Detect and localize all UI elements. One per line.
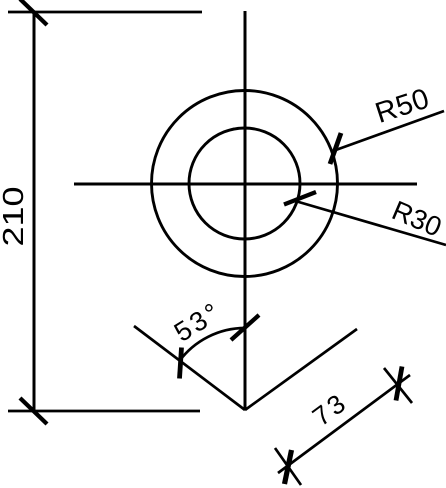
extension line lower (73 dim) — [275, 448, 301, 485]
leader line R30 — [297, 202, 446, 246]
tick R30 leader — [284, 192, 316, 205]
tick top of 210 dim — [20, 0, 47, 25]
arc tick on vertical centerline — [231, 315, 259, 340]
extension line upper (73 dim) — [384, 368, 412, 403]
left radiating line (53 deg leg) — [134, 326, 245, 410]
tick bottom of 210 dim — [20, 398, 47, 424]
centerline horizontal — [74, 183, 417, 186]
tick upper end of 73 dim — [396, 367, 402, 401]
outer circle R50 — [152, 91, 338, 277]
right radiating line (73 measured segment) — [245, 329, 357, 410]
tick lower end of 73 dim — [285, 450, 292, 484]
centerline vertical — [244, 11, 247, 410]
leader line R50 — [333, 111, 444, 151]
dimension line 73 — [278, 375, 410, 473]
arc tick on left radiating line — [180, 348, 182, 379]
dimension line 210 (vertical) — [33, 12, 36, 411]
angle dimension arc 53deg — [179, 328, 245, 361]
svg-text:210: 210 — [0, 187, 29, 247]
tick R50 leader — [330, 133, 341, 164]
inner circle R30 — [189, 128, 300, 239]
extension line top (210 dim) — [8, 11, 202, 14]
extension line bottom (210 dim) — [8, 410, 200, 413]
